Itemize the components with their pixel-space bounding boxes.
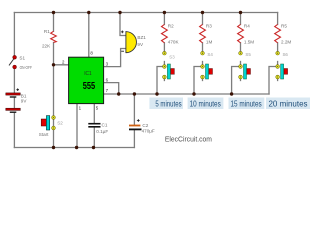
switch S1 ON-OFF <box>9 55 32 70</box>
wire R1 bottom lead to pin2 node <box>53 43 55 65</box>
wire R5 top lead from rail corner <box>277 13 279 25</box>
wire S6 stub lower <box>277 77 279 81</box>
wire R5 bottom lead <box>277 43 279 51</box>
svg-text:S4: S4 <box>207 52 213 57</box>
capacitor C2 (electrolytic) <box>129 119 155 134</box>
node S3 on discharge rail <box>155 92 158 95</box>
wire pin 2 <box>54 64 69 66</box>
svg-text:ElecCircuit.com: ElecCircuit.com <box>165 134 212 143</box>
wire pin 7 horizontal rail <box>104 93 269 95</box>
wire top +V rail <box>14 12 277 14</box>
wire buzzer - to pin 3 <box>104 49 126 67</box>
wire pin 8 riser <box>88 13 90 58</box>
resistor R4 <box>238 24 255 45</box>
wire S3 branch to rail <box>157 67 162 95</box>
svg-text:5 minutes: 5 minutes <box>155 98 181 108</box>
label 20 minutes <box>266 98 310 110</box>
wire R3 top lead <box>202 13 204 25</box>
wire pin 6 to discharge rail <box>104 83 119 94</box>
svg-text:9V: 9V <box>137 42 144 47</box>
node S4 on discharge rail <box>192 92 195 95</box>
svg-text:C2: C2 <box>142 123 148 128</box>
resistor R1 <box>42 29 56 48</box>
node pin2/R1 junction <box>52 63 55 66</box>
wire R4 bottom lead <box>240 43 242 51</box>
svg-text:R2: R2 <box>168 24 174 29</box>
svg-text:R1: R1 <box>44 29 50 34</box>
svg-text:1M: 1M <box>206 40 213 45</box>
label 5 minutes <box>149 98 183 110</box>
node S2 on ground rail <box>52 146 55 149</box>
svg-text:9V: 9V <box>21 99 28 104</box>
svg-text:470K: 470K <box>168 40 180 45</box>
svg-text:S5: S5 <box>245 52 251 57</box>
svg-text:470µF: 470µF <box>142 129 155 134</box>
node C1 on ground rail <box>92 146 95 149</box>
node R1/rail <box>52 11 55 14</box>
svg-text:IC1: IC1 <box>84 71 91 77</box>
wire C1 to ground <box>93 128 95 148</box>
label 15 minutes <box>229 98 265 110</box>
wire R2 bottom lead <box>163 43 165 51</box>
wire battery - to bottom rail <box>13 113 15 148</box>
svg-text:BZ1: BZ1 <box>137 35 146 40</box>
buzzer BZ1 <box>121 31 146 53</box>
svg-text:15 minutes: 15 minutes <box>231 98 262 108</box>
wire pin 5 to C1 <box>93 104 95 123</box>
battery B1 9V <box>6 88 28 113</box>
wire S3 stub lower <box>163 77 165 81</box>
svg-text:1.5M: 1.5M <box>244 40 254 45</box>
wire S4 branch to rail <box>194 67 200 95</box>
svg-text:S3: S3 <box>169 55 175 60</box>
node R4/rail <box>239 11 242 14</box>
node pin1 on ground rail <box>75 146 78 149</box>
svg-text:S6: S6 <box>283 52 289 57</box>
svg-text:Start: Start <box>39 132 49 137</box>
wire battery internal link <box>13 98 15 109</box>
node pin6 on discharge rail <box>117 92 120 95</box>
op-amp/IC U1 555 timer body <box>69 57 104 103</box>
wire pin2 node down through S2 to ground <box>53 65 55 148</box>
switch S3 <box>163 51 176 79</box>
svg-text:S2: S2 <box>57 120 63 125</box>
wire C2 bottom to ground rail <box>133 130 135 147</box>
switch S4 <box>201 51 214 79</box>
resistor R2 <box>162 24 180 45</box>
wire S4 stub lower <box>202 77 204 81</box>
svg-text:20 minutes: 20 minutes <box>269 98 308 108</box>
wire R3 bottom lead <box>202 43 204 51</box>
node R2/rail <box>163 11 166 14</box>
resistor R5 <box>275 24 292 45</box>
svg-text:R5: R5 <box>281 24 287 29</box>
node S5 on discharge rail <box>230 92 233 95</box>
wire S6 stub upper <box>277 62 279 67</box>
svg-text:0.1µF: 0.1µF <box>96 129 108 134</box>
label 10 minutes <box>188 98 224 110</box>
svg-text:555: 555 <box>83 81 96 92</box>
wire C2 top riser <box>133 94 135 125</box>
wire pin 1 to ground <box>76 104 78 148</box>
wire S4 stub upper <box>202 62 204 67</box>
wire left rail upper (rail to S1) <box>13 13 15 58</box>
wire S5 stub upper <box>240 62 242 67</box>
wire S5 branch to rail <box>232 67 238 95</box>
capacitor C1 <box>88 122 108 134</box>
switch S6 <box>276 51 289 79</box>
wire R2 leads <box>163 13 165 25</box>
node buzzer/rail <box>118 11 121 14</box>
svg-text:10 minutes: 10 minutes <box>190 98 221 108</box>
wire S1 to battery + <box>13 67 15 93</box>
svg-text:R4: R4 <box>244 24 250 29</box>
resistor R3 <box>200 24 213 45</box>
svg-text:22K: 22K <box>42 43 51 48</box>
wire S3 stub upper <box>163 62 165 67</box>
wire buzzer + riser <box>120 13 126 36</box>
svg-text:2.2M: 2.2M <box>281 40 291 45</box>
svg-text:ON-OFF: ON-OFF <box>20 65 33 70</box>
svg-text:R3: R3 <box>206 24 212 29</box>
svg-text:S1: S1 <box>19 55 25 60</box>
wire S6 branch to rail end <box>269 67 275 95</box>
node pin8/rail <box>87 11 90 14</box>
svg-text:C1: C1 <box>102 122 108 127</box>
wire S5 stub lower <box>240 77 242 81</box>
wire bottom ground rail <box>14 147 134 149</box>
wire R4 top lead <box>240 13 242 25</box>
pushbutton S2 Start <box>39 116 63 137</box>
wire R1 top lead from rail <box>53 13 55 32</box>
node C2 on discharge rail <box>133 92 136 95</box>
node R3/rail <box>201 11 204 14</box>
switch S5 <box>239 51 252 79</box>
node junction dots on +V rail <box>52 11 242 149</box>
